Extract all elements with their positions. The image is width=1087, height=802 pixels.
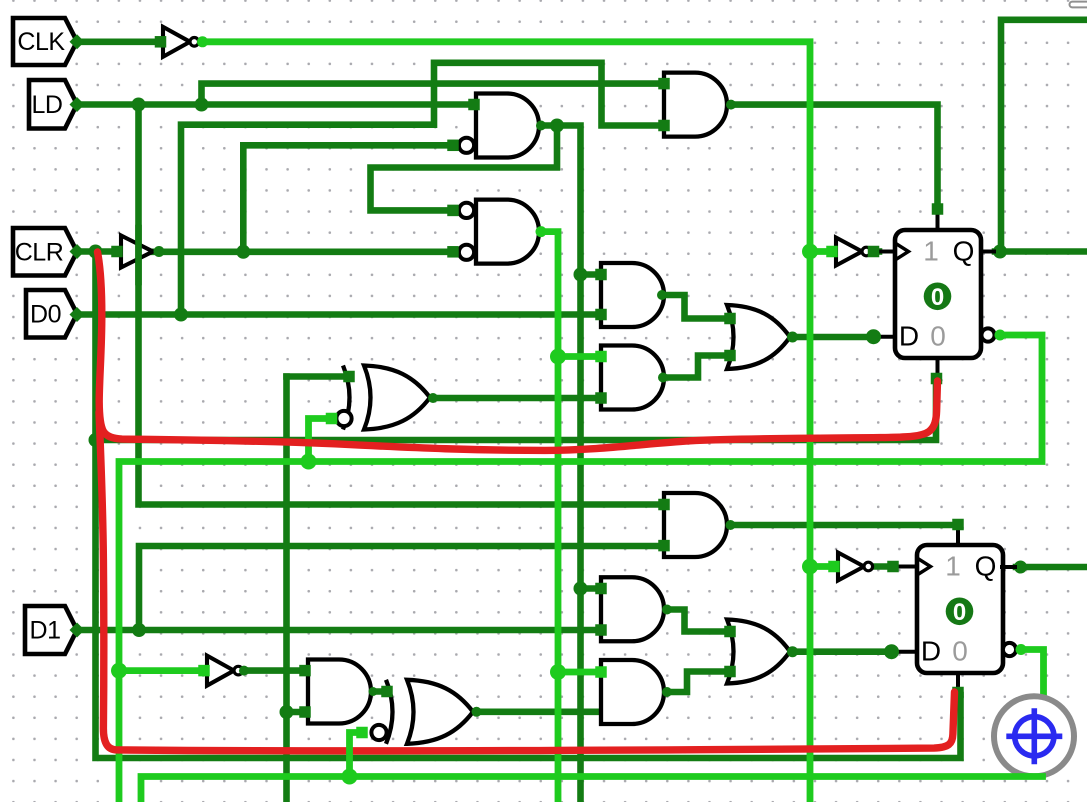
pin tip diamonds xyxy=(70,34,85,637)
node U6 line to U10 stub xyxy=(550,664,566,680)
and gate U10 xyxy=(601,660,664,724)
node clock branch FF2 xyxy=(802,559,818,575)
node D0 junction xyxy=(174,308,188,322)
gate output dots dark xyxy=(154,100,799,717)
and gate U5 with inverted input B xyxy=(459,94,539,158)
node CLR feedback junction xyxy=(89,433,103,447)
wire CLK to U1 xyxy=(77,38,157,45)
wire CLR up to U5 input B xyxy=(243,145,449,252)
node LD junction B xyxy=(195,98,209,112)
wire U17 out to FF2 D xyxy=(790,648,891,655)
wire U7 out to U11 input A xyxy=(659,295,726,319)
flip-flop FF2 xyxy=(917,545,1003,673)
inverter U14 D1 path xyxy=(207,656,243,686)
inverter U3 FF1 clock xyxy=(836,238,871,266)
svg-text:0: 0 xyxy=(953,599,966,626)
wire stub to U7 input A xyxy=(581,271,599,278)
svg-text:LD: LD xyxy=(32,91,63,119)
pin FF2 clear stub xyxy=(956,673,960,687)
zoom control fragment xyxy=(1070,2,1087,8)
node FF1 Q junction xyxy=(993,245,1007,259)
node net X junction xyxy=(280,705,294,719)
wire net X to U12 input A xyxy=(287,373,347,380)
svg-text:1: 1 xyxy=(923,236,939,267)
wire net X vertical xyxy=(283,377,290,802)
wire FF1 Q up to edge xyxy=(1001,20,1087,252)
wire stub to U14 input xyxy=(119,667,200,674)
svg-text:0: 0 xyxy=(952,636,968,667)
wire CLR error highlight to FF1 clear xyxy=(98,252,938,450)
wire CLR down long xyxy=(96,252,961,759)
wire U13 out to U11 input B xyxy=(660,356,726,378)
node clock branch FF1 xyxy=(802,244,818,260)
wire U8 out to FF2 preset xyxy=(727,522,951,529)
wire FF1 Q right xyxy=(995,248,1087,255)
node U5 line to U9 stub xyxy=(574,582,588,596)
wire LD to U4 input A xyxy=(202,84,661,105)
and gate U9 xyxy=(601,577,664,641)
input pin CLR xyxy=(13,228,77,276)
inverter U1 CLK xyxy=(163,27,199,57)
wire FF1 Qbar feedback xyxy=(119,335,1042,802)
and gate U15 xyxy=(308,660,371,724)
svg-text:D: D xyxy=(921,636,941,667)
wire U5 out xyxy=(538,126,581,802)
input pin LD xyxy=(29,80,77,129)
xor gate U16 with inverted input B xyxy=(371,680,473,744)
wire D0 row xyxy=(77,311,598,318)
node U5 line to U7 stub xyxy=(574,268,588,282)
wire U9 out to U17 input A xyxy=(665,610,726,632)
recenter button blue crosshair xyxy=(1006,708,1062,764)
svg-text:1: 1 xyxy=(945,551,961,582)
node CLR junction xyxy=(89,245,103,259)
input pin D0 xyxy=(26,290,77,338)
wire CLK inverted net xyxy=(201,42,810,802)
wire U3 bubble to FF1 clock square xyxy=(871,248,879,255)
svg-text:CLR: CLR xyxy=(15,238,64,266)
svg-text:Q: Q xyxy=(953,236,975,267)
node D1 junction xyxy=(132,623,146,637)
pin FF1 clock stub xyxy=(880,250,895,254)
and gate U4 xyxy=(664,73,727,137)
wire stub to U9 input A xyxy=(581,585,599,592)
node Qbar1 to U12 stub xyxy=(301,454,317,470)
pin FF2 Q stub xyxy=(1002,565,1015,569)
flip-flop FF1 xyxy=(895,230,981,358)
svg-text:Q: Q xyxy=(975,551,997,582)
wire stub to U16 input B xyxy=(350,733,359,777)
wire U19 bubble to FF2 clock square xyxy=(873,563,888,570)
input pin D1 xyxy=(25,606,77,654)
wire U16 out to U10 input B xyxy=(473,708,598,715)
wire stub to U3 xyxy=(810,248,828,255)
and gate U7 xyxy=(601,263,664,327)
or gate U17 xyxy=(727,620,790,684)
wire U14 out to U15 input A xyxy=(241,667,301,674)
wire stub to U13 input A xyxy=(558,353,598,360)
pin FF1 D stub xyxy=(879,335,895,339)
pin FF1 Q stub xyxy=(981,250,994,254)
wire FF2 Qbar feedback horizontal xyxy=(141,777,1043,802)
wire D1 row xyxy=(77,627,598,634)
wire stub to U19 xyxy=(810,563,830,570)
svg-text:0: 0 xyxy=(930,321,946,352)
wire end squares bright xyxy=(198,246,840,739)
node CLR branch junction xyxy=(236,245,250,259)
wire U11 out to FF1 D xyxy=(790,334,872,341)
pin FF1 Qbar bubble xyxy=(981,328,994,341)
wire U10 out to U17 input B xyxy=(665,672,726,693)
wire D1 riser to U8 input B xyxy=(139,546,660,630)
wire U6 out vertical xyxy=(538,232,558,802)
wire stub to U12 input B xyxy=(309,419,329,462)
pin FF2 clock stub xyxy=(899,565,917,569)
node FF1 D dot xyxy=(866,329,881,344)
pin FF1 preset stub xyxy=(936,215,940,230)
wire LD to U8 input A xyxy=(139,105,661,505)
pin FF2 preset stub xyxy=(956,530,960,545)
wire D0 riser to U4 input B xyxy=(181,63,660,315)
inverter U19 FF2 clock xyxy=(838,553,873,581)
wire CLR to U2 xyxy=(77,248,116,255)
wire U2 out to U6 input B xyxy=(152,249,449,256)
output dots bright xyxy=(197,36,1027,655)
wire CLR error highlight to FF2 clear xyxy=(99,412,955,751)
svg-text:D: D xyxy=(899,321,919,352)
recenter button grey circle xyxy=(994,696,1074,776)
wire stub to U10 input A xyxy=(558,669,598,676)
wire end squares dark xyxy=(111,36,964,718)
wire FF2 Qbar down xyxy=(1021,650,1044,773)
or gate U11 xyxy=(727,305,790,369)
node Qbar1 to U14 stub xyxy=(111,663,127,679)
wire FF2 Q right xyxy=(1016,564,1087,571)
and gate U13 xyxy=(601,346,664,410)
node LD junction A xyxy=(132,98,146,112)
wire stub to U15 input B xyxy=(287,709,302,716)
and gate U8 xyxy=(664,493,727,557)
node U6 line to U13 stub xyxy=(550,349,566,365)
svg-text:CLK: CLK xyxy=(17,28,65,56)
svg-text:D1: D1 xyxy=(30,617,61,645)
wire U15 out to U16 input A xyxy=(368,688,384,695)
pin FF2 Qbar bubble xyxy=(1003,643,1016,656)
wire U4 out to FF1 preset xyxy=(727,105,938,206)
node U5 out junction xyxy=(550,119,564,133)
wire LD vertical over buffer xyxy=(135,228,142,282)
and gate U6 with inverted inputs xyxy=(459,200,539,264)
wire LD row xyxy=(77,101,471,108)
xor gate U12 with inverted input B xyxy=(336,366,430,430)
svg-text:0: 0 xyxy=(931,284,944,311)
wire U5 out to U6 input A xyxy=(371,126,558,211)
pin FF2 D stub xyxy=(897,650,917,654)
pin FF1 clear stub xyxy=(936,358,940,373)
input pin CLK xyxy=(13,18,77,65)
buffer U2 CLR xyxy=(121,236,153,268)
wire CLR to FF1 clear xyxy=(96,383,937,440)
node Qbar2 to U16 stub xyxy=(342,769,358,785)
wire U12 out to U13 input B xyxy=(430,395,598,402)
node FF2 D dot xyxy=(884,644,899,659)
node FF2 Q dot xyxy=(1014,561,1027,574)
svg-text:D0: D0 xyxy=(30,300,61,328)
